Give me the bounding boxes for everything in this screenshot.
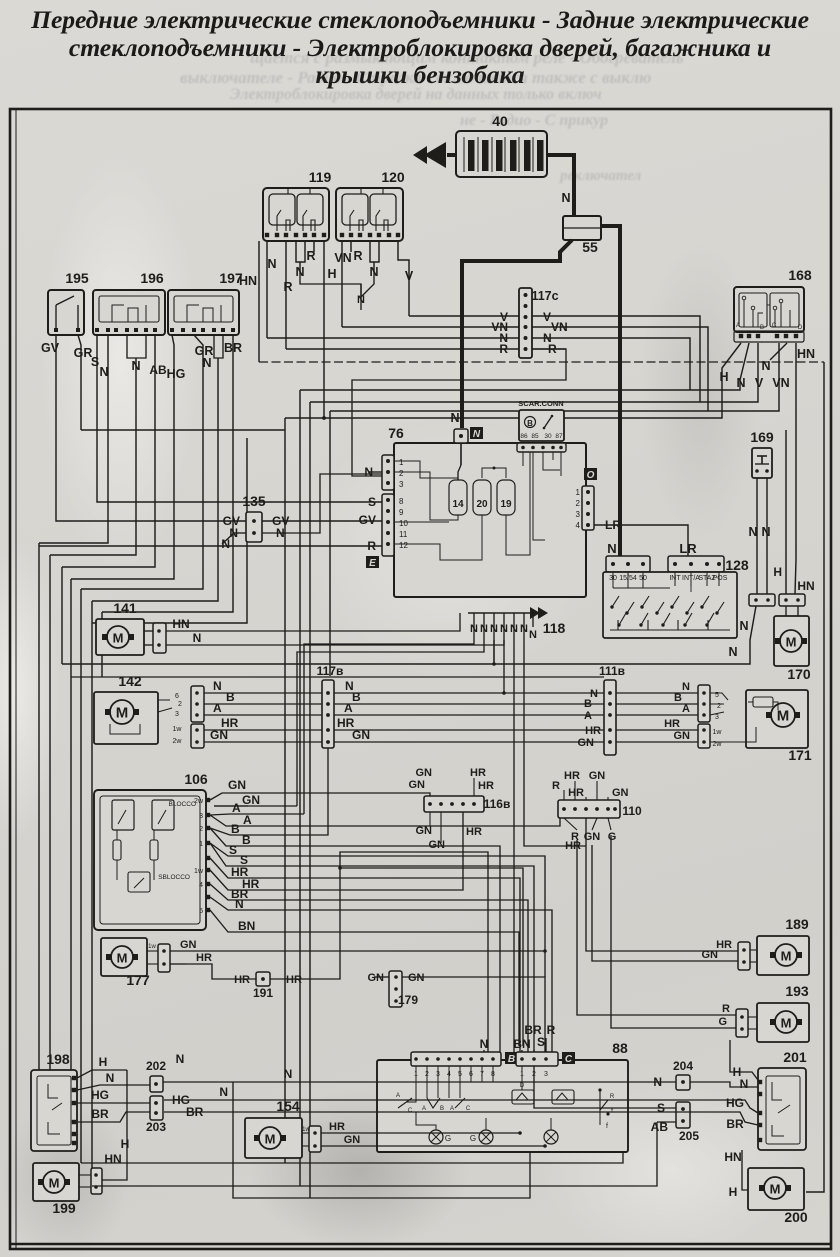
route A 2 to 110 [246,802,560,826]
svg-text:205: 205 [679,1129,699,1143]
svg-text:N: N [500,623,508,635]
route B 2 to 88 [246,846,500,1056]
wire N from 141 [166,644,222,646]
inner wiring 88 [416,1112,436,1130]
svg-text:M: M [265,1132,276,1147]
wires 106 A [210,811,236,815]
svg-text:N: N [510,623,518,635]
connector 205 [676,1102,690,1128]
svg-text:C: C [772,323,777,329]
fuse 19 in 76 [497,480,515,515]
feed N to 88 [483,1050,485,1052]
svg-text:N: N [748,525,757,539]
svg-text:2: 2 [717,703,721,710]
svg-text:128: 128 [725,557,749,573]
wire HN long [200,630,474,632]
wire HG from 197 [71,335,174,579]
connector 141 [153,623,166,653]
switch block 196 [93,290,165,335]
svg-text:O: O [587,470,595,481]
wire V from 120 [398,241,409,316]
resistors inside 106 [113,840,121,860]
N input connector on 76 [454,429,468,443]
labels 110 top [563,790,565,800]
svg-text:3: 3 [715,714,719,721]
wire S from 196 [97,335,383,502]
wire GR from 195 [78,335,81,430]
inner border line left [15,109,17,1249]
svg-text:106: 106 [184,771,208,787]
svg-text:3: 3 [399,480,404,489]
svg-text:N: N [728,645,737,659]
bundle wire 3 [70,579,72,1070]
bottom bus 1 [81,1152,623,1163]
wire from 128 right to N down [560,638,660,652]
motor 170 [774,616,809,666]
svg-text:BR: BR [91,1107,109,1121]
connector block 201 [758,1068,806,1150]
svg-text:N: N [213,679,222,693]
wire HN from 201 to 200 [740,1145,760,1186]
wire to bundle x92 [92,438,247,623]
wire BR from 197 [102,335,233,612]
svg-text:1w: 1w [173,726,183,733]
svg-text:VN: VN [551,320,568,334]
svg-text:1: 1 [576,488,581,497]
switch connector 119 [263,188,329,241]
paper stains [250,1090,470,1250]
title line 2 [0,33,840,63]
svg-text:196: 196 [140,270,164,286]
motor 177 [101,938,147,976]
connector pins 76 left upper [382,455,394,490]
svg-text:H: H [327,267,336,281]
svg-text:LR: LR [679,541,697,556]
svg-text:GN: GN [589,770,606,782]
wire HG from 198 [77,1102,150,1104]
svg-text:V: V [405,269,414,283]
connector strip 142 [191,686,204,722]
bus stub routes [304,640,474,814]
switch f in 88 [600,1090,608,1110]
svg-text:1w: 1w [194,868,204,875]
wire y868 to 88 [340,868,523,1046]
svg-text:H: H [773,565,782,579]
svg-text:A: A [682,703,690,715]
svg-text:116в: 116в [484,797,511,811]
svg-text:N: N [607,541,616,556]
labels 116B top [420,778,430,796]
svg-text:HN: HN [797,347,815,361]
switch D 1 in 88 [521,1066,523,1090]
svg-text:BR: BR [224,341,242,355]
connector 111B [604,680,616,755]
svg-text:GN: GN [408,972,425,984]
svg-text:195: 195 [65,270,89,286]
svg-text:R: R [547,1023,556,1037]
ground bus 118 [468,612,540,614]
switch inside 106 [128,872,150,892]
wire AB from 196 [62,335,155,567]
wire GN down to 189 [592,845,740,961]
relay 1 inside 106 [112,800,134,830]
svg-text:A: A [422,1106,426,1112]
motor 142 [94,692,158,744]
connector 135 [246,512,262,542]
relay 2 inside 106 [152,800,174,830]
left vertical x330 from VN bus [329,411,331,676]
svg-text:GN: GN [180,939,197,951]
wire N joint under 120 [300,272,374,297]
route GN 2 up to bus [214,805,297,807]
svg-text:141: 141 [113,600,137,616]
ignition switch contacts row2 [619,613,626,625]
bundle wire 4 [80,589,82,1163]
fuse 20 in 76 [473,480,491,515]
svg-text:117c: 117c [531,289,558,303]
svg-text:86: 86 [520,433,528,440]
vertical AB bundle to N line [61,567,63,664]
svg-text:119: 119 [309,169,332,185]
svg-text:M: M [770,1182,781,1197]
svg-text:GV: GV [41,341,60,355]
svg-text:S: S [229,843,237,857]
svg-text:B: B [231,822,240,836]
connector strip 88 left [411,1052,501,1066]
connector 202 [150,1076,163,1092]
fuse 14 in 76 [458,465,461,487]
N icon [470,427,483,439]
wire VN from 120 [341,241,343,327]
svg-text:GN: GN [352,728,370,742]
svg-text:B: B [440,1106,444,1112]
svg-text:f: f [606,1123,608,1130]
wires 106 stub GN [210,793,236,800]
svg-text:BR: BR [726,1117,744,1131]
fusible link 40 [456,131,547,177]
relay SCAR.CONN [519,410,564,441]
route HR 2 to 116B [248,812,463,890]
inner border line bottom [10,1243,831,1246]
ignition switch 128 body [603,572,737,638]
seventh N stub [532,613,534,627]
svg-text:169: 169 [750,429,774,445]
svg-text:19: 19 [500,499,512,510]
svg-text:GN: GN [409,779,426,791]
svg-text:V: V [755,376,764,390]
svg-text:B: B [352,690,361,704]
svg-text:N: N [480,623,488,635]
svg-text:199: 199 [52,1200,76,1216]
title line 1 [0,5,840,35]
wire N from 135 [234,532,246,534]
svg-text:M: M [786,635,797,650]
svg-text:189: 189 [785,916,809,932]
wires 106 BN [210,910,242,932]
svg-text:2: 2 [199,826,203,833]
bleed-through ghost text [250,48,684,68]
svg-text:154: 154 [276,1098,300,1114]
svg-text:GN: GN [612,787,629,799]
bundle wire 6 [101,612,103,677]
labels 116B bottom [429,812,431,826]
svg-text:B: B [527,419,533,428]
svg-text:GN: GN [674,730,691,742]
wire N bracket 197 [214,335,223,358]
wire R from 119 [285,241,287,349]
svg-text:A: A [213,701,222,715]
route R to 88 [242,910,552,1056]
ignition switch 128 connector right [668,556,724,572]
svg-text:SCAR.CONN: SCAR.CONN [518,399,563,408]
svg-text:HR: HR [234,974,250,986]
svg-text:10: 10 [399,519,408,528]
svg-text:SBLOCCO: SBLOCCO [158,874,190,881]
control unit 76 [394,443,586,597]
svg-text:191: 191 [253,986,273,1000]
bundle wire 2 [49,555,51,1070]
svg-text:G: G [445,1134,451,1143]
svg-text:S: S [91,355,99,369]
bottom bus 2 [92,1122,657,1186]
svg-text:8: 8 [399,497,404,506]
connector 179 [389,971,402,1007]
wire R down to 193 [577,840,738,1015]
svg-text:2w: 2w [194,798,204,805]
wire 179 right [402,977,545,1147]
route GN top to 116B [236,793,430,810]
junction box 55 [563,216,601,240]
O icon [584,468,597,480]
switch A-C 1 inside 88 [406,1082,416,1102]
svg-text:HN: HN [104,1152,121,1166]
svg-text:A: A [232,801,241,815]
svg-text:N: N [470,623,478,635]
wire H from 168 [285,343,741,418]
wire HN from 119 [258,241,260,362]
wires 106 BR [210,884,240,900]
bus N [267,338,690,390]
svg-text:V: V [543,310,551,324]
wire HR down to 189 [586,818,740,951]
svg-text:12: 12 [399,541,408,550]
svg-text:S: S [368,495,376,509]
connector 177 [158,944,170,972]
svg-text:HN: HN [724,1150,741,1164]
svg-text:N: N [520,623,528,635]
wire H from 198 [77,1070,127,1078]
svg-text:76: 76 [388,425,404,441]
svg-text:3: 3 [576,510,581,519]
wires 111B to 171 [616,692,698,694]
wire HN from 168 [795,343,796,594]
svg-text:2: 2 [178,701,182,708]
svg-text:N: N [284,1067,293,1081]
svg-text:E: E [369,558,376,569]
svg-text:HR: HR [716,939,732,951]
wire N2 stub from 168 [770,343,787,360]
motor 189 [757,936,809,975]
svg-text:R: R [552,780,560,792]
svg-text:20: 20 [476,499,488,510]
svg-text:B: B [674,692,682,704]
wires H HN to 170 [785,430,787,594]
wire R label 119 pin [313,241,315,252]
svg-text:Y: Y [610,1108,614,1114]
bus VN [342,327,708,411]
svg-text:B: B [760,325,764,331]
svg-text:A: A [396,1093,400,1099]
svg-text:HR: HR [565,840,581,852]
svg-text:A: A [450,1106,454,1112]
svg-text:117в: 117в [317,664,344,678]
svg-text:A: A [344,701,353,715]
svg-text:M: M [777,708,790,725]
connector 116B [424,796,484,812]
wire 191 right [270,852,488,1052]
svg-text:11: 11 [399,530,408,539]
svg-text:N: N [529,629,537,641]
wire BR from 198 [77,1112,150,1122]
svg-text:HG: HG [726,1096,744,1110]
svg-text:3: 3 [544,1071,548,1078]
bundle wire 1 [38,543,40,1070]
svg-text:M: M [781,1016,792,1031]
connector 193 [736,1009,748,1037]
svg-text:197: 197 [219,270,243,286]
wire HG from 203 [163,1099,745,1101]
thick wire N from 40 to 55 [547,155,574,216]
svg-text:R: R [610,1094,615,1100]
svg-text:204: 204 [673,1059,693,1073]
connector above motor 170 [779,594,805,606]
bus R [286,348,566,350]
svg-text:R: R [283,280,292,294]
svg-text:H: H [99,1055,108,1069]
connector 117c [519,288,532,358]
svg-text:HG: HG [167,367,186,381]
svg-text:HR: HR [470,767,486,779]
wire BR to 201 [164,1112,758,1125]
thick wire from 55 down right branch [601,226,620,560]
wire 179 left stub [374,976,389,978]
route B 1 to 117B [240,748,328,835]
connector 154 [309,1126,321,1152]
svg-text:AB: AB [149,363,167,377]
svg-text:171: 171 [788,747,812,763]
svg-text:2w: 2w [173,738,183,745]
svg-text:H: H [729,1185,738,1199]
svg-text:D: D [798,325,803,331]
wire GN from 154 [321,1146,545,1147]
route BR to 88 [240,900,528,1052]
relay inside 171 [753,697,773,707]
switch block 197 [168,290,239,335]
thermal breaker 169 [752,448,772,478]
svg-text:N: N [235,897,244,911]
wire V from 168 [310,343,758,402]
svg-text:HR: HR [329,1121,345,1133]
svg-text:M: M [117,951,128,966]
svg-text:HR: HR [664,718,680,730]
svg-text:1: 1 [199,841,203,848]
labels 110 bottom [564,818,577,830]
wire HG to 201 [164,1100,758,1113]
svg-text:BR: BR [524,1023,542,1037]
svg-text:85: 85 [531,433,539,440]
connector 117B [322,680,334,748]
wire R 120 pin [350,241,352,252]
motor 141 [96,619,144,655]
bundle wire 5 [91,601,93,1186]
wires N N from 169 [756,478,758,596]
svg-text:HR: HR [196,952,212,964]
wires 106 HR [210,858,240,878]
svg-text:N: N [202,356,211,370]
svg-text:5: 5 [199,908,203,915]
svg-text:R: R [722,1003,730,1015]
connector 142 contacts [158,699,170,701]
svg-text:N: N [106,1071,115,1085]
svg-text:LR: LR [605,518,621,532]
connector 203 [150,1096,163,1120]
route A 1 up to bus [240,813,304,815]
svg-text:30: 30 [544,433,552,440]
motor 154 [245,1118,302,1158]
connector under 169 [749,594,775,606]
svg-text:GN: GN [210,728,228,742]
C icon [562,1052,575,1064]
wire N bracket 120 [370,241,379,262]
route S 2 to 88 [246,866,534,1056]
wire N from 168 [300,343,749,390]
wire GR 195 to x285 [81,429,285,431]
svg-text:GN: GN [242,793,260,807]
wire HN from 141 [166,630,476,632]
svg-text:GN: GN [368,972,385,984]
svg-text:202: 202 [146,1059,166,1073]
svg-text:GR: GR [74,346,93,360]
connector 189 [738,942,750,970]
svg-text:3: 3 [199,813,203,820]
svg-text:GN: GN [578,737,595,749]
svg-text:BLOCCO: BLOCCO [169,801,196,808]
wires 106 S [210,843,238,856]
svg-text:GN: GN [416,825,433,837]
motor 193 [757,1003,809,1042]
svg-text:142: 142 [118,673,142,689]
svg-text:55: 55 [582,239,598,255]
wires 106 GN2 [210,800,248,806]
long vertical from 118 to 88 [493,640,495,664]
route BN to 88 [242,932,519,1046]
svg-text:4: 4 [576,521,581,530]
svg-text:HR: HR [286,974,302,986]
wire HR from 177 [170,963,186,965]
N stubs on bus 118 [473,613,475,640]
svg-text:G: G [718,1016,727,1028]
wires 117B to 111B [334,692,604,694]
svg-text:203: 203 [146,1120,166,1134]
svg-text:GN: GN [429,839,446,851]
svg-text:HR: HR [466,826,482,838]
connector 110 [558,800,620,818]
switch A-C 2 inside 88 [426,1082,428,1098]
svg-text:G: G [470,1134,476,1143]
wiring inside 76 [394,461,458,478]
wires 106 N [210,897,242,910]
wire H from 119 [323,241,325,418]
